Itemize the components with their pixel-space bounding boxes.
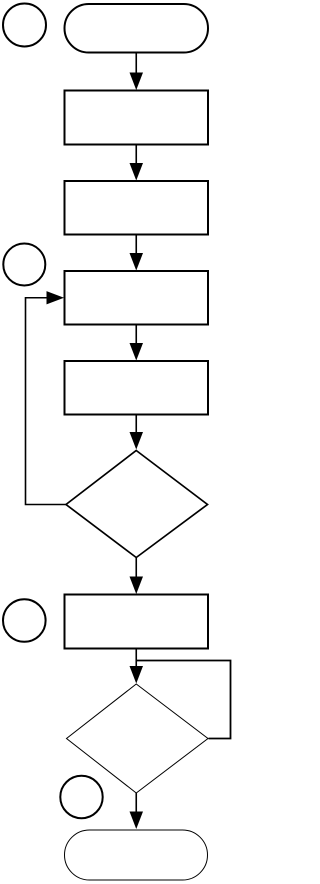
node circle 1	[3, 4, 46, 47]
process box P2	[65, 181, 209, 235]
wire P1 to P2	[130, 145, 144, 181]
terminator end	[65, 830, 208, 880]
wire D1 to P5	[130, 558, 144, 595]
node circle 3	[3, 599, 46, 642]
node circle 2	[3, 244, 45, 286]
wire loop-back from decision D1 into P3	[26, 291, 67, 504]
wire P2 to P3	[130, 235, 144, 271]
process box P1	[65, 91, 209, 145]
wire P5 to D2	[130, 649, 144, 684]
process box P5	[65, 595, 209, 649]
wire P4 to D1	[130, 415, 144, 450]
wire D2 to end terminator	[130, 793, 144, 829]
decision diamond D2	[67, 684, 209, 793]
decision diamond D1	[66, 451, 208, 558]
wire P3 to P4	[130, 325, 144, 361]
wire branch around to D2 right vertex	[136, 661, 230, 739]
node circle 4	[60, 776, 102, 818]
wire start to P1	[130, 53, 144, 90]
process box P3	[65, 271, 209, 325]
terminator start	[65, 4, 209, 53]
process box P4	[65, 361, 209, 415]
